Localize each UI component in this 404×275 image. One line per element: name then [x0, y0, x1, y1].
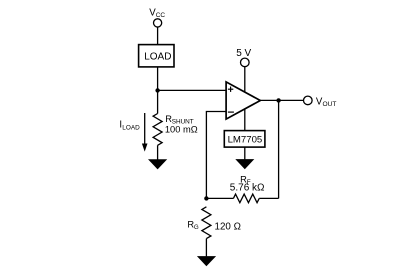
- node feedback junction: [204, 196, 208, 200]
- ground under RSHUNT: [148, 159, 167, 169]
- node output junction: [276, 98, 280, 102]
- load block: [139, 45, 174, 67]
- svg-text:CC: CC: [156, 12, 166, 19]
- terminal VCC: [154, 19, 162, 27]
- wire RF right: [259, 197, 278, 199]
- label ILOAD: [119, 119, 140, 131]
- ground under RG: [197, 256, 216, 266]
- LM7705: [224, 131, 265, 148]
- op-amp U1: [226, 82, 260, 119]
- wire VCC to LOAD: [157, 27, 159, 45]
- resistor RF: [233, 194, 259, 203]
- current arrow ILOAD: [142, 113, 148, 152]
- svg-text:5.76 kΩ: 5.76 kΩ: [230, 183, 265, 194]
- resistor RG: [202, 207, 211, 239]
- wire RG to ground: [205, 239, 207, 257]
- wire node to op-amp + input: [158, 89, 226, 91]
- wire - input: [206, 112, 226, 199]
- node junction at + input: [155, 88, 159, 92]
- label VOUT: [316, 97, 337, 109]
- terminal 5V: [241, 58, 250, 67]
- wire 5V through op-amp to LM7705: [244, 67, 246, 131]
- ground under LM7705: [235, 159, 254, 169]
- label RSHUNT: [165, 114, 194, 126]
- wire LOAD to RSHUNT: [157, 67, 159, 114]
- terminal VOUT: [304, 96, 313, 105]
- svg-text:100 mΩ: 100 mΩ: [165, 125, 198, 135]
- label RF: [240, 174, 251, 186]
- wire RSHUNT to ground: [157, 145, 159, 159]
- svg-text:LOAD: LOAD: [122, 125, 140, 132]
- label RG: [187, 220, 199, 232]
- wire RF left: [206, 197, 233, 199]
- svg-text:G: G: [194, 224, 199, 231]
- svg-text:120 Ω: 120 Ω: [215, 222, 241, 233]
- svg-text:LOAD: LOAD: [144, 52, 171, 63]
- label VCC: [149, 7, 165, 19]
- wire feedback vertical: [278, 100, 280, 198]
- resistor RSHUNT: [153, 114, 162, 146]
- svg-text:LM7705: LM7705: [228, 135, 263, 146]
- wire op-amp output: [260, 99, 303, 101]
- svg-text:OUT: OUT: [323, 101, 337, 108]
- svg-text:5 V: 5 V: [236, 48, 251, 59]
- wire LM7705 to ground: [244, 147, 246, 159]
